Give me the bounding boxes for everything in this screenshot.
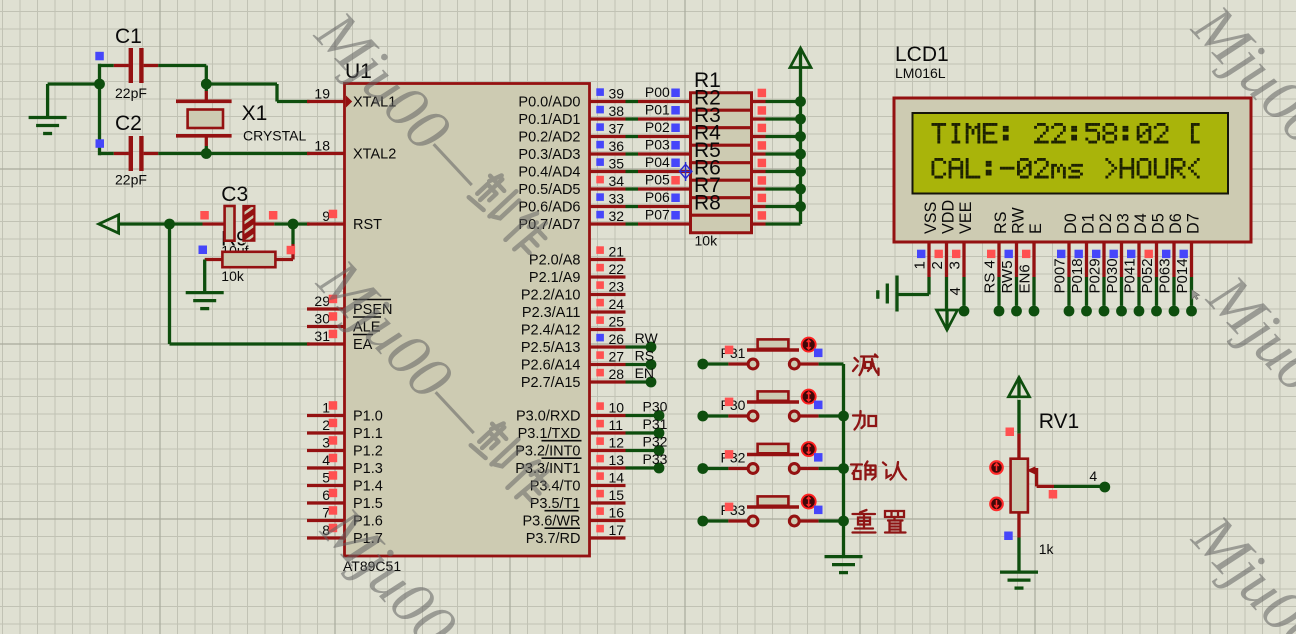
resistor R4 <box>691 122 767 163</box>
label 10k <box>695 233 719 249</box>
pin 22 P2.1/A9 <box>529 261 626 286</box>
pin 37 P0.2/AD2 <box>518 121 625 146</box>
wire EA run <box>170 224 310 344</box>
svg-text:RS: RS <box>635 348 654 364</box>
node P06 <box>645 189 680 205</box>
wire net P31 <box>626 416 668 438</box>
node P05 <box>645 172 680 188</box>
svg-text:4: 4 <box>1089 468 1097 484</box>
svg-text:RST: RST <box>353 217 382 233</box>
resistor R1 <box>691 69 767 110</box>
rv1 adjust icon up <box>990 461 1003 474</box>
watermark <box>304 246 563 517</box>
wire pin 39 to R1 <box>626 100 691 103</box>
pin 4 P1.3 <box>307 452 383 477</box>
pin 12 P3.2/INT0 <box>515 435 625 460</box>
pin 14 P3.4/T0 <box>530 470 626 495</box>
node junction C1-C2 <box>94 64 105 155</box>
svg-text:P3.5/T1: P3.5/T1 <box>530 496 581 512</box>
lcd pin RW <box>999 207 1028 317</box>
wire R9 to ground <box>203 260 206 293</box>
wire C3 to RST pin <box>274 222 309 225</box>
svg-text:RW: RW <box>635 330 659 346</box>
node P03 <box>645 137 680 153</box>
svg-text:15: 15 <box>609 487 625 503</box>
svg-text:P014: P014 <box>1174 258 1191 293</box>
svg-text:31: 31 <box>314 328 330 344</box>
svg-text:P1.4: P1.4 <box>353 479 383 495</box>
svg-text:LCD1: LCD1 <box>895 43 949 66</box>
node junction <box>838 516 849 527</box>
svg-text:24: 24 <box>609 296 625 312</box>
power for RV1 <box>1009 377 1030 433</box>
lcd pin VEE <box>947 201 976 316</box>
pin 11 P3.1/TXD <box>518 417 626 442</box>
svg-text:P00: P00 <box>645 84 670 100</box>
wire pin 32 to R8 <box>626 222 691 225</box>
svg-text:22pF: 22pF <box>115 85 147 101</box>
svg-text:P07: P07 <box>645 207 670 223</box>
wire to pin 19 <box>206 84 309 102</box>
svg-text:12: 12 <box>609 435 625 451</box>
svg-text:P32: P32 <box>643 434 668 450</box>
pin 5 P1.4 <box>307 470 383 495</box>
node P00 <box>645 84 680 100</box>
lcd pin D4 <box>1122 213 1151 316</box>
wire pin 37 to R3 <box>626 135 691 138</box>
node junction <box>838 463 849 474</box>
pin 3 P1.2 <box>307 435 383 460</box>
wire down to R9 <box>291 224 294 260</box>
node junction bus <box>795 149 806 160</box>
svg-text:33: 33 <box>609 191 625 207</box>
power VCC <box>790 48 811 102</box>
svg-text:14: 14 <box>609 470 625 486</box>
svg-text:P0.1/AD1: P0.1/AD1 <box>518 112 580 128</box>
svg-text:EN6: EN6 <box>1017 264 1034 293</box>
wire pin 38 to R2 <box>626 117 691 120</box>
svg-text:RS: RS <box>992 211 1010 234</box>
pin 25 P2.4/A12 <box>521 314 626 339</box>
ground <box>825 557 863 573</box>
svg-text:P0.6/AD6: P0.6/AD6 <box>518 200 580 216</box>
pin 28 P2.7/A15 <box>521 366 626 391</box>
pin 30 ALE <box>307 311 381 336</box>
pin 27 P2.6/A14 <box>521 349 626 374</box>
lcd LCD1 body <box>894 43 1251 242</box>
svg-text:X1: X1 <box>242 102 268 125</box>
pin 6 P1.5 <box>307 487 383 512</box>
svg-text:D1: D1 <box>1080 213 1098 234</box>
wire net EN <box>626 365 657 387</box>
svg-text:13: 13 <box>609 452 625 468</box>
svg-text:RS 4: RS 4 <box>982 260 999 293</box>
wire net P33 <box>626 451 668 473</box>
node junction bus <box>795 201 806 212</box>
pin 23 P2.2/A10 <box>521 279 626 304</box>
wire RST run <box>170 222 203 225</box>
pin 33 P0.6/AD6 <box>518 191 625 216</box>
wire pin 35 to R5 <box>626 170 691 173</box>
svg-text:LM016L: LM016L <box>895 65 946 81</box>
svg-text:10k: 10k <box>695 233 719 249</box>
svg-text:36: 36 <box>609 138 625 154</box>
svg-text:17: 17 <box>609 522 625 538</box>
wire <box>48 82 100 85</box>
svg-text:P1.2: P1.2 <box>353 444 383 460</box>
svg-text:D0: D0 <box>1062 213 1080 234</box>
svg-text:P3.1/TXD: P3.1/TXD <box>518 426 581 442</box>
svg-text:P03: P03 <box>645 137 670 153</box>
svg-text:19: 19 <box>314 86 330 102</box>
svg-text:2: 2 <box>929 261 946 269</box>
svg-text:R8: R8 <box>694 192 721 215</box>
terminal arrow RST net <box>99 215 170 233</box>
pin 15 P3.5/T1 <box>530 487 626 512</box>
svg-text:P2.4/A12: P2.4/A12 <box>521 323 581 339</box>
cursor arrow small <box>1192 290 1200 300</box>
label queren (confirm) <box>851 462 906 480</box>
pin 9 RST <box>307 208 382 233</box>
svg-text:P063: P063 <box>1157 258 1174 293</box>
svg-text:16: 16 <box>609 505 625 521</box>
svg-text:P3.7/RD: P3.7/RD <box>526 531 581 547</box>
node P07 <box>645 207 680 223</box>
lcd pin D2 <box>1087 213 1116 316</box>
svg-text:P0.0/AD0: P0.0/AD0 <box>518 95 580 111</box>
svg-text:P030: P030 <box>1104 258 1121 293</box>
svg-text:28: 28 <box>609 366 625 382</box>
svg-text:39: 39 <box>609 86 625 102</box>
lcd pin D7 <box>1174 213 1203 316</box>
resistor R5 <box>691 139 767 180</box>
pin 19 XTAL1 <box>307 86 396 111</box>
watermark <box>1179 0 1296 264</box>
wire pin 33 to R7 <box>626 205 691 208</box>
pin 8 P1.7 <box>307 522 383 547</box>
pin 36 P0.3/AD3 <box>518 138 625 163</box>
wire pin 34 to R6 <box>626 187 691 190</box>
wire RV1 to ground <box>1017 538 1020 573</box>
svg-text:32: 32 <box>609 208 625 224</box>
pin 31 EA <box>307 328 373 353</box>
watermark <box>1194 262 1296 533</box>
svg-text:E: E <box>1027 223 1045 234</box>
svg-text:1: 1 <box>912 261 929 269</box>
svg-text:P30: P30 <box>643 399 668 415</box>
cursor crosshair <box>679 162 693 181</box>
wire C1 to crystal <box>158 66 206 85</box>
svg-text:P05: P05 <box>645 172 670 188</box>
lcd pin VDD <box>929 200 958 311</box>
pin 10 P3.0/RXD <box>516 400 625 425</box>
svg-text:P2.6/A14: P2.6/A14 <box>521 358 581 374</box>
svg-text:VSS: VSS <box>922 201 940 234</box>
pin 32 P0.7/AD7 <box>518 208 625 233</box>
wire pin 36 to R4 <box>626 152 691 155</box>
svg-text:RV1: RV1 <box>1039 410 1079 433</box>
wire net P32 <box>626 434 668 456</box>
svg-text:P018: P018 <box>1069 258 1086 293</box>
lcd pin E <box>1017 223 1046 316</box>
node junction RST-R9 <box>288 219 299 230</box>
svg-text:VDD: VDD <box>940 200 958 234</box>
ground <box>1000 572 1038 588</box>
label net 4 <box>947 287 964 295</box>
node P02 <box>645 119 680 135</box>
watermark <box>308 494 567 634</box>
svg-text:P0.2/AD2: P0.2/AD2 <box>518 130 580 146</box>
node junction bus <box>795 184 806 195</box>
wire button bus <box>842 364 845 557</box>
lcd text line 2 <box>932 158 1200 178</box>
watermark <box>302 0 561 270</box>
svg-text:XTAL2: XTAL2 <box>353 147 396 163</box>
svg-text:38: 38 <box>609 103 625 119</box>
label jia (plus) <box>853 411 876 430</box>
ground <box>29 84 67 134</box>
resistor R9 <box>205 246 295 284</box>
pin 39 P0.0/AD0 <box>518 86 625 111</box>
svg-text:D6: D6 <box>1167 213 1185 234</box>
node junction <box>838 411 849 422</box>
svg-text:VEE: VEE <box>957 201 975 234</box>
wire net RS <box>626 348 657 370</box>
pin 13 P3.3/INT1 <box>515 452 625 477</box>
svg-text:P06: P06 <box>645 189 670 205</box>
button S3 net P32 <box>697 442 843 474</box>
resistor R9 label <box>221 228 248 251</box>
pin 26 P2.5/A13 <box>521 331 626 356</box>
svg-text:P2.0/A8: P2.0/A8 <box>529 253 581 269</box>
svg-text:P01: P01 <box>645 102 670 118</box>
svg-text:P31: P31 <box>643 416 668 432</box>
svg-text:D4: D4 <box>1132 213 1150 234</box>
svg-text:26: 26 <box>609 331 625 347</box>
svg-text:P052: P052 <box>1139 258 1156 293</box>
svg-text:P33: P33 <box>643 451 668 467</box>
wire power bus <box>799 102 802 225</box>
capacitor C2 <box>96 112 159 188</box>
resistor R6 <box>691 157 767 198</box>
node junction bus <box>795 114 806 125</box>
svg-text:RW: RW <box>1010 207 1028 234</box>
svg-text:P0.5/AD5: P0.5/AD5 <box>518 182 580 198</box>
node junction XTAL2 net <box>201 148 212 159</box>
lcd pin D0 <box>1052 213 1081 316</box>
svg-text:21: 21 <box>609 244 625 260</box>
pin 16 P3.6/WR <box>522 505 625 530</box>
pin 7 P1.6 <box>307 505 383 530</box>
svg-text:P02: P02 <box>645 119 670 135</box>
svg-text:37: 37 <box>609 121 625 137</box>
wire wiper net 4 <box>1049 468 1111 499</box>
svg-text:C3: C3 <box>221 183 248 206</box>
svg-text:P3.6/WR: P3.6/WR <box>522 514 580 530</box>
svg-text:25: 25 <box>609 314 625 330</box>
label jian (minus) <box>853 355 879 376</box>
wire to pin 18 <box>206 152 309 155</box>
capacitor C1 <box>95 25 158 101</box>
pin 34 P0.5/AD5 <box>518 173 625 198</box>
svg-text:P2.5/A13: P2.5/A13 <box>521 340 581 356</box>
node junction bus <box>795 96 806 107</box>
svg-text:4: 4 <box>947 287 964 295</box>
svg-text:3: 3 <box>947 261 964 269</box>
rv1 adjust icon down <box>990 498 1003 511</box>
wire R3 to bus <box>766 135 801 138</box>
node junction bus <box>795 131 806 142</box>
power VDD down arrow <box>937 310 958 330</box>
wire net P30 <box>626 399 668 421</box>
lcd pin D1 <box>1069 213 1098 316</box>
svg-text:P0.3/AD3: P0.3/AD3 <box>518 147 580 163</box>
svg-text:34: 34 <box>609 173 625 189</box>
svg-text:23: 23 <box>609 279 625 295</box>
wire R4 to bus <box>766 152 801 155</box>
svg-text:P007: P007 <box>1052 258 1069 293</box>
lcd pin D3 <box>1104 213 1133 316</box>
pin 17 P3.7/RD <box>526 522 626 547</box>
svg-text:P2.3/A11: P2.3/A11 <box>522 305 581 321</box>
potentiometer RV1 <box>1004 410 1079 557</box>
svg-text:22pF: 22pF <box>115 172 147 188</box>
resistor R8 <box>691 192 767 233</box>
svg-text:D5: D5 <box>1150 213 1168 234</box>
svg-text:10: 10 <box>609 400 625 416</box>
wire R6 to bus <box>766 187 801 190</box>
pin 18 XTAL2 <box>307 138 396 163</box>
node junction bus <box>795 166 806 177</box>
resistor R2 <box>691 87 767 128</box>
lcd pin D6 <box>1157 213 1186 316</box>
svg-text:P1.1: P1.1 <box>353 426 383 442</box>
svg-text:RW5: RW5 <box>999 260 1016 293</box>
svg-text:C2: C2 <box>115 112 142 135</box>
capacitor C3 <box>199 183 278 259</box>
wire net RW <box>626 330 659 352</box>
svg-text:P2.7/A15: P2.7/A15 <box>521 375 581 391</box>
node junction XTAL1 net <box>201 79 212 90</box>
svg-text:27: 27 <box>609 349 625 365</box>
lcd pin D5 <box>1139 213 1168 316</box>
node P01 <box>645 102 680 118</box>
svg-text:22: 22 <box>609 261 625 277</box>
pin 35 P0.4/AD4 <box>518 156 625 181</box>
pin 21 P2.0/A8 <box>529 244 626 269</box>
wire R8 to bus <box>766 222 801 225</box>
svg-text:D7: D7 <box>1185 213 1203 234</box>
node P04 <box>645 154 680 170</box>
svg-text:P0.4/AD4: P0.4/AD4 <box>518 165 580 181</box>
crystal X1 <box>176 84 306 154</box>
lcd pin VSS <box>897 201 940 294</box>
svg-text:35: 35 <box>609 156 625 172</box>
svg-text:P041: P041 <box>1122 258 1139 293</box>
svg-text:P3.2/INT0: P3.2/INT0 <box>515 444 580 460</box>
watermark <box>1179 502 1296 634</box>
wire R2 to bus <box>766 117 801 120</box>
svg-text:P04: P04 <box>645 154 670 170</box>
lcd text line 1 <box>932 123 1200 143</box>
pin 2 P1.1 <box>307 417 383 442</box>
pin 38 P0.1/AD1 <box>518 103 625 128</box>
button S4 net P33 <box>697 495 843 527</box>
svg-text:P1.3: P1.3 <box>353 461 383 477</box>
wire R7 to bus <box>766 205 801 208</box>
pin 1 P1.0 <box>307 400 383 425</box>
svg-text:P1.0: P1.0 <box>353 409 383 425</box>
svg-text:1k: 1k <box>1039 541 1055 557</box>
svg-text:11: 11 <box>609 417 624 433</box>
svg-text:CRYSTAL: CRYSTAL <box>243 128 306 144</box>
svg-text:18: 18 <box>314 138 330 154</box>
svg-text:P029: P029 <box>1087 258 1104 293</box>
op-amp U1 body (AT89C51) <box>343 60 590 574</box>
label zhongzhi (reset) <box>853 510 906 533</box>
wire R1 to bus <box>766 100 801 103</box>
svg-text:D3: D3 <box>1115 213 1133 234</box>
svg-text:10k: 10k <box>221 268 245 284</box>
button S1 net P31 <box>697 338 843 370</box>
lcd pin RS <box>982 211 1011 316</box>
resistor R3 <box>691 104 767 145</box>
button S2 net P30 <box>697 390 843 422</box>
resistor R7 <box>691 174 767 215</box>
svg-text:P2.1/A9: P2.1/A9 <box>529 270 581 286</box>
ground (rotated) <box>878 276 897 312</box>
ground <box>186 293 224 309</box>
svg-text:C1: C1 <box>115 25 142 48</box>
svg-text:EN: EN <box>635 365 654 381</box>
svg-text:P2.2/A10: P2.2/A10 <box>521 288 581 304</box>
pin 29 PSEN <box>307 293 393 318</box>
pin 24 P2.3/A11 <box>522 296 626 321</box>
svg-text:P3.0/RXD: P3.0/RXD <box>516 409 580 425</box>
wire C2 to crystal <box>158 152 206 155</box>
svg-text:D2: D2 <box>1097 213 1115 234</box>
node junction RST-EA <box>164 219 175 230</box>
wire R5 to bus <box>766 170 801 173</box>
